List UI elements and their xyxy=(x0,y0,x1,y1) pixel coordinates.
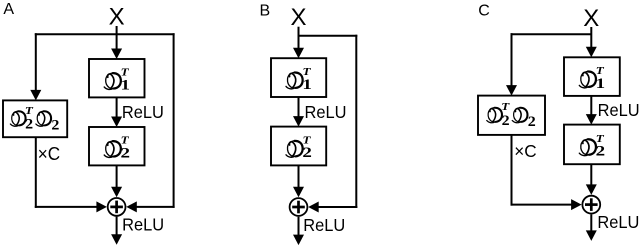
arrowhead top-into adder (B) xyxy=(293,187,304,198)
block D2^T label (A): fraktur D glyph xyxy=(104,141,121,157)
arrowhead top-into adder (A) xyxy=(111,187,122,198)
wire: left branch horizontal (C) xyxy=(511,33,592,35)
block D2^T.D2 (C) xyxy=(478,96,545,135)
arrowhead into D2 (A) xyxy=(111,117,122,128)
svg-text:2: 2 xyxy=(25,116,33,132)
svg-text:ReLU: ReLU xyxy=(597,212,639,232)
wire: D2 to adder (A) xyxy=(116,165,118,187)
svg-text:C: C xyxy=(478,3,490,20)
output arrowhead (C) xyxy=(586,230,597,241)
svg-text:2: 2 xyxy=(51,117,59,133)
block D2^T.D2 label (A): fraktur D glyph 1 xyxy=(10,111,25,126)
arrowhead into D2 (C) xyxy=(586,114,597,125)
svg-text:×C: ×C xyxy=(514,141,536,161)
block D1^T (B) xyxy=(271,58,326,97)
wire: skip branch horizontal (B) xyxy=(299,35,358,37)
arrowhead into D2T.D2 block (C) xyxy=(506,85,517,96)
block D1^T label (C): fraktur D glyph xyxy=(579,71,596,87)
output arrowhead (A) xyxy=(111,234,122,245)
arrowhead left-into adder (A) xyxy=(96,201,107,212)
adder node (A) xyxy=(108,198,126,216)
arrowhead into D1 (B) xyxy=(293,48,304,59)
wire: skip into adder (B) xyxy=(318,206,358,208)
svg-text:×C: ×C xyxy=(38,143,60,164)
wire: left branch down (A) xyxy=(35,33,37,91)
svg-text:2: 2 xyxy=(528,114,536,130)
wire: D1 to D2 (A) xyxy=(116,97,118,117)
block D1^T label (A): fraktur D glyph xyxy=(104,73,121,89)
block D2^T label (C): fraktur D glyph xyxy=(579,139,596,155)
arrowhead left-into adder (C) xyxy=(571,199,582,210)
wire: X down to D1 (C) xyxy=(590,27,592,48)
arrowhead right-into adder (A) xyxy=(126,201,137,212)
wire: X down to D1 (B) xyxy=(298,27,300,49)
wire: skip branch down (B) xyxy=(355,35,357,208)
wire: below D2T.D2 down (A) xyxy=(35,137,37,208)
wire: below D2T.D2 down (C) xyxy=(511,135,513,206)
block D1^T (A) xyxy=(89,59,145,97)
block D2^T.D2 label (C): fraktur D glyph 2 xyxy=(512,108,527,123)
wire: right identity branch down (A) xyxy=(173,33,175,208)
wire: left branch down (C) xyxy=(511,33,513,86)
svg-text:ReLU: ReLU xyxy=(598,100,640,120)
wire: left branch into adder (C) xyxy=(511,204,573,206)
svg-text:1: 1 xyxy=(121,77,131,93)
wire: adder to output (C) xyxy=(590,214,592,231)
block D2^T.D2 (A) xyxy=(3,100,67,137)
block D1^T label (B): fraktur D glyph xyxy=(286,72,303,88)
svg-text:1: 1 xyxy=(596,76,606,92)
arrowhead into D1 (C) xyxy=(586,47,597,58)
output arrowhead (B) xyxy=(293,235,304,246)
arrowhead right-into adder (B) xyxy=(308,202,319,213)
adder node (C) xyxy=(582,196,600,214)
arrowhead into D1 (A) xyxy=(111,49,122,60)
arrowhead into D2 (B) xyxy=(293,116,304,127)
svg-text:ReLU: ReLU xyxy=(305,102,347,122)
svg-text:ReLU: ReLU xyxy=(122,102,164,122)
block D2^T (C) xyxy=(564,125,620,165)
wire: adder to output (A) xyxy=(116,217,118,236)
wire: top branch horizontal (A) xyxy=(35,33,175,35)
svg-text:ReLU: ReLU xyxy=(303,215,345,235)
wire: D2 to adder (B) xyxy=(298,165,300,187)
svg-text:2: 2 xyxy=(596,144,606,160)
svg-text:B: B xyxy=(260,3,271,20)
svg-text:2: 2 xyxy=(302,145,312,161)
svg-text:2: 2 xyxy=(121,145,131,161)
wire: left branch into adder (A) xyxy=(35,206,98,208)
block D2^T.D2 label (A): fraktur D glyph 2 xyxy=(36,111,51,126)
block D2^T.D2 label (C): fraktur D glyph 1 xyxy=(487,108,502,123)
wire: adder to output (B) xyxy=(298,217,300,236)
block D1^T (C) xyxy=(564,57,620,96)
svg-text:1: 1 xyxy=(302,77,312,93)
arrowhead into D2T.D2 block (A) xyxy=(30,90,41,101)
wire: D1 to D2 (C) xyxy=(590,96,592,115)
svg-text:2: 2 xyxy=(502,113,510,129)
wire: X down to D1 (A) xyxy=(116,26,118,50)
wire: D1 to D2 (B) xyxy=(298,97,300,117)
arrowhead top-into adder (C) xyxy=(586,184,597,195)
block D2^T (B) xyxy=(271,127,326,166)
wire: right branch into adder (A) xyxy=(136,206,175,208)
wire: D2 to adder (C) xyxy=(590,164,592,185)
adder node (B) xyxy=(290,198,308,216)
block D2^T label (B): fraktur D glyph xyxy=(286,141,303,157)
svg-text:ReLU: ReLU xyxy=(122,214,164,234)
svg-text:A: A xyxy=(3,1,14,18)
block D2^T (A) xyxy=(89,127,145,165)
